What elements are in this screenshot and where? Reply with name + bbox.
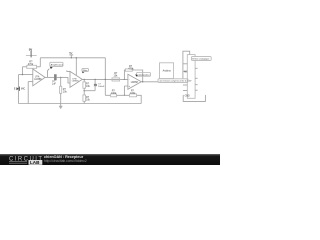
wire divider mid to C3 bottom lead [84, 90, 95, 92]
resistor R8 470k (feedback of U3) [125, 69, 132, 71]
connector J1 left pins [183, 64, 187, 91]
microphone MIC1 lead (vertical wire) [17, 75, 19, 104]
footer attribution bar [0, 154, 220, 166]
wire C2 to node [57, 76, 68, 78]
svg-text:MIC: MIC [21, 88, 26, 91]
resistor R7 (divider right) [130, 94, 137, 97]
wire op-amp U1 bottom input [28, 81, 33, 83]
resistor R2 10k (vertical, to ground) [60, 77, 62, 86]
wire R1 left lead [22, 66, 26, 68]
junction at rail tap [71, 57, 72, 58]
svg-text:Entree analogique: Entree analogique [192, 58, 210, 61]
svg-text:470k: 470k [128, 67, 134, 70]
annotation A4 (voltage range label box) [158, 79, 192, 83]
svg-text:100k: 100k [130, 92, 136, 95]
svg-text:LAB: LAB [30, 160, 40, 165]
wire V+ rail right drop [104, 58, 106, 96]
svg-text:http://circuitlab.com/c9ddmc2: http://circuitlab.com/c9ddmc2 [44, 158, 87, 162]
capacitor C3 plates [94, 84, 97, 85]
wire R1 right lead [37, 66, 41, 68]
svg-text:LM358: LM358 [131, 82, 139, 84]
op-amp U1A LM358 (triangle) [33, 69, 45, 86]
wire U3 output [141, 81, 158, 83]
capacitor C2 plates (series in output wire) [55, 74, 56, 80]
svg-text:Comparateur: Comparateur [137, 73, 149, 76]
annotation A2 (filter label box) [82, 68, 89, 72]
label R6 value [111, 90, 117, 95]
svg-text:470k: 470k [28, 63, 34, 66]
svg-text:GND: GND [185, 95, 190, 97]
connector J1 header body [187, 55, 195, 99]
annotation A1 arrow [50, 67, 53, 69]
junction at rail/V+ stub [76, 57, 77, 58]
wire U1 output [45, 76, 54, 78]
wire R8 right lead to output [132, 70, 142, 82]
label R5 value [114, 72, 119, 77]
logo stripe lines [9, 161, 27, 163]
wire divider chain (V+ to ground) [105, 95, 141, 103]
resistor R3 (vertical divider top) [83, 79, 85, 82]
connector J1 right pins [195, 59, 198, 90]
capacitor C3 bottom lead [94, 86, 96, 91]
label R1 value 470k [28, 60, 34, 66]
svg-text:-: - [129, 78, 130, 81]
junction node cap/R2 [60, 77, 61, 78]
power tap V+ at x71 [69, 55, 73, 58]
svg-text:5V: 5V [69, 51, 72, 55]
wire rail left drop to R1 [39, 58, 41, 67]
resistor R1 470k (box) [27, 65, 37, 68]
label R8 value [128, 65, 134, 70]
wire ground rail (bottom) [18, 103, 141, 105]
junction node at R1/input [22, 74, 23, 75]
wire U1 bottom input drop to ground rail [27, 82, 29, 104]
op-amp U3 LM358 (triangle) [128, 74, 141, 89]
annotation A3 arrow [135, 74, 138, 76]
label U1A LM358 inside [34, 76, 42, 82]
wire U2 top input stub [67, 70, 70, 71]
wire U2 output bus [82, 78, 128, 80]
wire output riser to header (upper part) [183, 51, 190, 78]
label R3 value [86, 83, 91, 89]
box annotation Arduino [160, 63, 174, 79]
junction node bus/C3 [94, 79, 95, 80]
wire top rail V+ [40, 57, 105, 59]
label C3 value [98, 84, 105, 88]
svg-text:1uF: 1uF [52, 82, 57, 85]
label R2 value [63, 88, 68, 94]
svg-text:100k: 100k [111, 92, 117, 95]
annotation A3 (comparator label box) [137, 73, 151, 77]
annotation A5 (Entree analogique label box) [191, 57, 211, 61]
svg-text:Amplification: Amplification [51, 64, 64, 67]
junction node divider to plus input [124, 95, 125, 96]
logo LAB box [29, 160, 43, 165]
op-amp U2 LM358 (triangle) [70, 71, 82, 87]
label C2 value [52, 80, 57, 85]
svg-text:100nF: 100nF [98, 86, 105, 88]
svg-text:Arduino: Arduino [163, 70, 172, 73]
capacitor C3 top lead (from bus) [94, 79, 96, 84]
annotation A1 leader line [48, 69, 50, 78]
wire R8 left lead down to input node [124, 70, 125, 79]
ground symbol GND [59, 104, 62, 109]
svg-text:U?A: U?A [35, 76, 40, 79]
power flag V+ 5V (left supply symbol) [26, 51, 37, 58]
label R4 value [86, 96, 91, 102]
wire ground loop below header [183, 95, 205, 102]
annotation A1 Amplification (label box) [50, 62, 64, 66]
svg-text:LM358: LM358 [34, 79, 42, 81]
junction node inverting input U3 [124, 79, 125, 80]
annotation A2 arrow [82, 72, 84, 74]
microphone MIC1 symbol [16, 87, 19, 91]
label R7 value [130, 90, 136, 95]
wire R1 to op-amp inverting input (drop) [21, 67, 23, 75]
junction node divider mid [84, 90, 85, 91]
junction node U2 out / R3 [84, 79, 85, 80]
label U2 inside [72, 78, 79, 82]
svg-text:5V: 5V [29, 47, 33, 51]
wire node to U2 plus input (corner) [68, 77, 70, 83]
wire U3 plus input riser [124, 86, 128, 95]
junction feedback/output [142, 81, 143, 82]
wire op-amp U1 top input [18, 74, 32, 76]
svg-text:LM358: LM358 [72, 81, 79, 83]
junction bus crossing [105, 79, 106, 80]
resistor R5 10k (series into U3) [112, 78, 120, 81]
resistor R4 (vertical divider bottom) [83, 95, 86, 101]
resistor R6 (divider left) [111, 94, 117, 97]
wire U2 V+ stub from rail [75, 58, 77, 76]
